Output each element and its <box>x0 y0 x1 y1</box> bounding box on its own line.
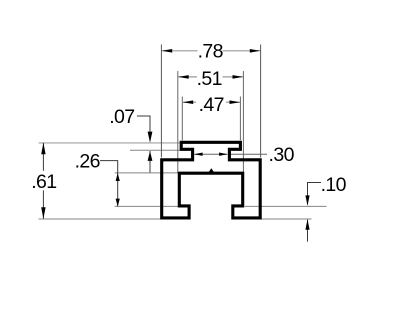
extension line channel-ceiling (.26) <box>115 172 178 174</box>
svg-text:.51: .51 <box>197 68 222 90</box>
dimension .30 arrowheads <box>194 153 203 156</box>
svg-text:.07: .07 <box>109 106 134 128</box>
extension line lip-top left (.26) <box>115 205 180 207</box>
extension line bottom right (.10) <box>261 218 312 220</box>
dimension .61 up arrowhead <box>41 143 45 155</box>
dimension .26 leader <box>100 161 118 207</box>
profile outline of extrusion cross-section <box>162 142 261 218</box>
svg-text:.78: .78 <box>198 40 223 62</box>
extension line .51 left <box>177 71 179 173</box>
dimension .47 line <box>183 101 196 103</box>
extension line lip-top right (.10) <box>245 205 327 207</box>
extension line .78 right <box>260 45 262 158</box>
dimension .10 down arrowhead <box>305 195 309 206</box>
dimension .47 arrowheads <box>183 100 194 104</box>
svg-text:.26: .26 <box>75 151 100 173</box>
extension line .51 right <box>242 71 244 173</box>
svg-text:.10: .10 <box>321 174 347 196</box>
dimension .78 arrowheads <box>162 49 173 53</box>
extension line .78 left <box>160 45 162 158</box>
dimension .07 leader <box>137 116 150 141</box>
dimension .51 arrowheads <box>178 75 189 79</box>
extension line bottom left (.61) <box>39 218 161 220</box>
center tick on channel ceiling <box>209 168 214 172</box>
dimension .51 line <box>178 76 197 78</box>
dimension .07 up arrowhead and shaft <box>149 151 151 173</box>
extension line .47 left <box>181 97 183 141</box>
dimension .26 down arrowhead <box>116 199 120 207</box>
dimension .10 leader <box>308 183 322 205</box>
extension line plate-top (shared .61 / .07) <box>39 142 180 144</box>
extension line .47 right <box>239 97 241 141</box>
dimension .30 leader to text <box>231 153 267 155</box>
dimension .61 down arrowhead <box>41 207 45 219</box>
dimension .30 line between necks <box>194 153 227 155</box>
dimension .07 down arrowhead <box>148 132 153 143</box>
svg-text:.47: .47 <box>199 94 224 116</box>
dimension .78 line <box>162 50 198 52</box>
dimension .61 line upper segment <box>42 143 44 171</box>
extension line step-bottom (.07) <box>130 149 180 151</box>
dimension .10 up arrowhead and shaft <box>307 220 309 242</box>
dimension .26 up arrowhead <box>116 173 120 181</box>
svg-text:.30: .30 <box>269 144 295 166</box>
svg-text:.61: .61 <box>31 171 56 193</box>
dimension .61 line lower segment <box>42 190 44 218</box>
